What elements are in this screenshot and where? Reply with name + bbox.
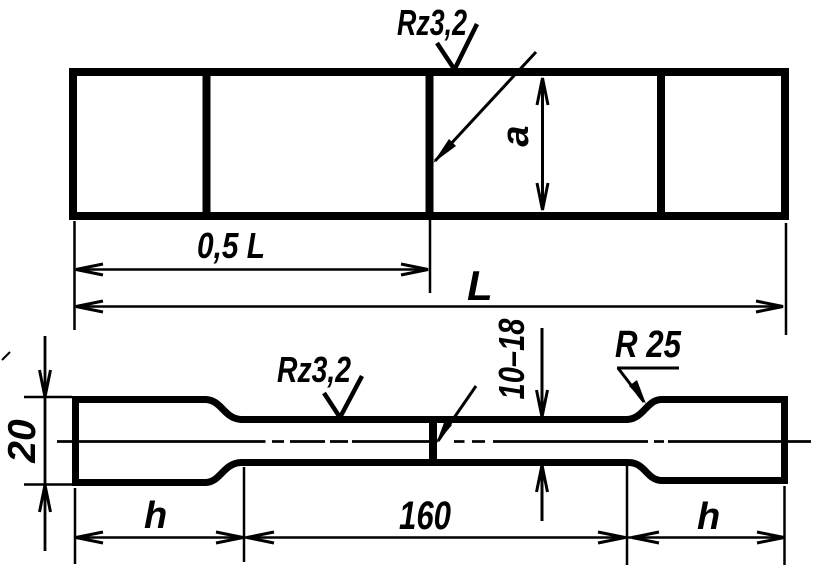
arrow left h2 — [632, 532, 659, 543]
extension line specimen left end — [74, 488, 77, 564]
arrow right 160 — [598, 532, 625, 543]
arrow right h1 — [216, 532, 243, 543]
extension line gauge left — [243, 467, 246, 562]
R25 leader line — [618, 368, 644, 402]
svg-text:160: 160 — [399, 494, 451, 538]
bottom view specimen outline — [76, 400, 785, 483]
dimension 20 top extension line — [24, 396, 72, 399]
svg-text:20: 20 — [1, 419, 44, 464]
dimension 10-18 upper line — [541, 328, 544, 415]
leader line to weld seam top view — [435, 52, 536, 161]
bottom dimension line — [75, 536, 785, 539]
svg-text:R 25: R 25 — [615, 324, 682, 366]
extension line specimen right end — [783, 486, 786, 565]
arrow left 160 — [247, 532, 274, 543]
arrow down 10-18 — [537, 390, 548, 417]
specimen centerline — [57, 440, 811, 443]
arrow right h2 — [757, 532, 784, 543]
extension line right below plate — [785, 223, 788, 335]
top view plate outline — [73, 72, 785, 216]
extension line gauge right — [626, 464, 629, 565]
arrow up 20 — [40, 485, 51, 512]
R25 leader shelf — [617, 367, 679, 370]
leader arrowhead bottom view — [436, 420, 452, 444]
extension line left below plate — [73, 221, 76, 330]
dimension line 0,5L — [76, 268, 428, 271]
roughness symbol top view — [437, 24, 477, 70]
dimension a line — [541, 79, 544, 208]
arrow right 0,5L — [401, 264, 428, 275]
leader line to weld seam bottom view — [438, 386, 476, 441]
top view divider line right — [657, 68, 665, 220]
top view weld seam line — [426, 68, 434, 220]
arrow left L — [76, 301, 103, 312]
svg-text:Rz3,2: Rz3,2 — [397, 2, 467, 43]
arrow right L — [756, 301, 783, 312]
dimension 10-18 lower line — [541, 466, 544, 521]
weld seam line bottom view — [429, 418, 437, 462]
arrow left h1 — [76, 532, 103, 543]
svg-text:0,5 L: 0,5 L — [197, 225, 265, 266]
weld seam extension line below plate — [429, 220, 432, 293]
stray scan mark left edge — [2, 352, 10, 360]
arrow left 0,5L — [76, 264, 103, 275]
top view divider line left — [203, 68, 211, 220]
svg-text:10–18: 10–18 — [491, 319, 532, 400]
dimension 20 line — [44, 336, 47, 551]
dimension 20 bottom extension line — [24, 483, 72, 486]
dimension line L — [76, 305, 783, 308]
R25 leader arrowhead — [629, 380, 646, 404]
dimension a arrow down — [537, 183, 548, 210]
svg-text:a: a — [495, 125, 537, 146]
dimension a arrow up — [537, 78, 548, 105]
svg-text:Rz3,2: Rz3,2 — [277, 349, 351, 390]
leader arrowhead top view — [433, 139, 456, 163]
svg-text:h: h — [697, 496, 720, 538]
svg-text:L: L — [467, 262, 493, 309]
arrow up 10-18 — [537, 465, 548, 492]
roughness symbol bottom view — [324, 376, 362, 418]
svg-text:h: h — [144, 495, 167, 537]
arrow down 20 — [40, 370, 51, 397]
